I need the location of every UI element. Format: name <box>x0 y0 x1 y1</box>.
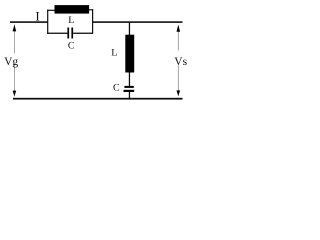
svg-text:C: C <box>113 83 120 94</box>
svg-text:Vs: Vs <box>174 56 187 68</box>
svg-text:C: C <box>68 40 75 51</box>
svg-text:Vg: Vg <box>4 56 18 68</box>
svg-text:L: L <box>111 48 117 59</box>
svg-text:I: I <box>35 9 39 24</box>
svg-text:L: L <box>68 15 74 26</box>
